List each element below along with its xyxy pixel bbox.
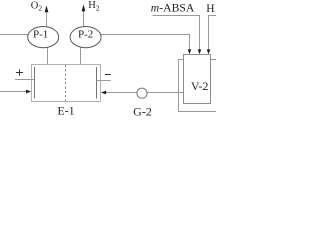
svg-text:O2: O2 <box>31 0 43 12</box>
svg-text:E-1: E-1 <box>57 103 74 117</box>
svg-text:V-2: V-2 <box>191 79 209 93</box>
svg-text:H: H <box>206 3 214 15</box>
svg-text:G-2: G-2 <box>133 104 152 118</box>
svg-text:P-1: P-1 <box>33 29 48 41</box>
svg-text:H2: H2 <box>88 0 100 12</box>
svg-text:m-ABSA: m-ABSA <box>151 2 195 15</box>
svg-text:P-2: P-2 <box>78 29 93 41</box>
